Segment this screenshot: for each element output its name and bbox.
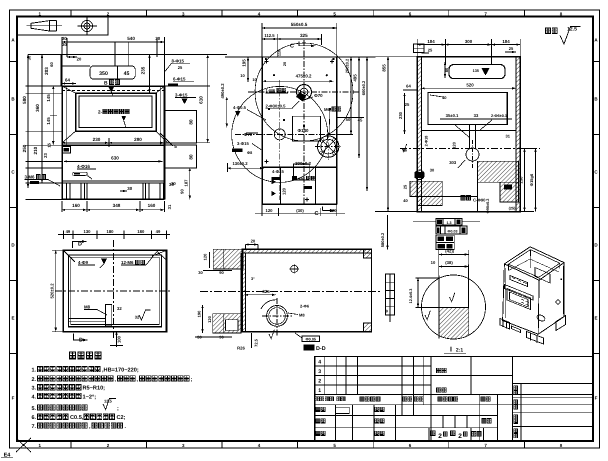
svg-text:40: 40	[403, 198, 408, 203]
second top dim row	[67, 56, 77, 58]
svg-text:25: 25	[178, 65, 183, 70]
svg-text:25: 25	[428, 48, 433, 53]
svg-text:(30): (30)	[296, 208, 304, 213]
svg-text:230: 230	[93, 137, 101, 142]
dim 630	[64, 160, 163, 162]
svg-text:49: 49	[156, 229, 161, 234]
left dim 185/10	[247, 57, 249, 82]
bolt at left wall	[415, 172, 425, 178]
svg-text:8-Φ15: 8-Φ15	[172, 58, 185, 63]
isometric left-front face	[503, 264, 539, 334]
svg-text:1.3: 1.3	[447, 221, 452, 225]
svg-text:10: 10	[240, 73, 245, 78]
right strip	[512, 382, 593, 384]
right dims 250/495/600	[350, 57, 352, 134]
base strip lines	[62, 180, 165, 182]
svg-text:;: ;	[117, 406, 119, 412]
svg-text:20: 20	[77, 57, 82, 62]
svg-text:184: 184	[427, 39, 435, 44]
svg-text:90: 90	[180, 189, 185, 194]
svg-text:Φ: Φ	[385, 309, 389, 312]
tech requirements title	[70, 352, 76, 359]
svg-text:180: 180	[137, 229, 145, 234]
svg-text:135: 135	[473, 69, 479, 73]
front view inner opening inner rect	[79, 96, 152, 128]
svg-text:Φ90±0.2: Φ90±0.2	[486, 199, 490, 214]
svg-text:300±0.2: 300±0.2	[295, 161, 311, 166]
svg-text:190: 190	[196, 310, 201, 317]
svg-text:M8: M8	[299, 177, 305, 182]
svg-text:145: 145	[46, 94, 51, 102]
right wall hatch	[516, 57, 520, 212]
inner vertical lines lower part	[279, 167, 281, 204]
dim 145 chain	[52, 86, 54, 145]
dim 100 below	[116, 332, 118, 347]
plan view outline	[63, 250, 166, 331]
svg-text:210: 210	[33, 146, 38, 154]
svg-text:145: 145	[46, 117, 51, 125]
top dim 30/540/30	[62, 41, 165, 43]
svg-text:30: 30	[62, 36, 67, 41]
D-D outline	[242, 249, 371, 331]
bolt hole dots around circle1	[265, 58, 267, 60]
window rect	[292, 116, 320, 141]
svg-text:3.: 3.	[32, 386, 37, 392]
svg-text:325: 325	[262, 289, 270, 294]
top datum line	[28, 54, 227, 56]
svg-text:130±0.2: 130±0.2	[232, 161, 248, 166]
front view top edge	[62, 85, 165, 87]
svg-text:M6: M6	[324, 107, 330, 112]
zone ticks top/bottom	[70, 10, 72, 17]
plan view inner rects	[68, 255, 161, 327]
svg-text:3: 3	[318, 369, 321, 375]
small rect lower	[293, 164, 309, 180]
svg-text:64: 64	[406, 83, 411, 88]
svg-text:E: E	[11, 316, 14, 321]
svg-text:C-Φ90: C-Φ90	[473, 197, 486, 202]
front view right edge (thick)	[164, 86, 166, 199]
opening corner diagonals	[156, 86, 165, 93]
svg-text:4-Φ0.5: 4-Φ0.5	[233, 105, 247, 110]
svg-text:280: 280	[134, 137, 142, 142]
svg-text:195: 195	[241, 59, 246, 67]
svg-text:;: ;	[191, 377, 193, 383]
svg-text:12.4±0.3: 12.4±0.3	[409, 289, 413, 304]
svg-text:32: 32	[117, 306, 122, 311]
middle view left edge	[261, 57, 263, 204]
material label	[437, 368, 441, 373]
svg-text:160: 160	[148, 203, 156, 208]
title block outer	[315, 357, 593, 441]
svg-text:855: 855	[382, 64, 387, 72]
svg-text:E: E	[594, 316, 597, 321]
isometric slots on front face	[510, 276, 528, 287]
isometric oval hole front	[536, 314, 546, 323]
svg-text:350: 350	[99, 71, 108, 77]
svg-text:5.: 5.	[32, 406, 37, 412]
isometric inner bottom hints	[508, 256, 559, 272]
base foot rects	[67, 183, 85, 199]
top dim 550	[262, 27, 337, 29]
rounded label box 350/45	[90, 66, 135, 79]
inner shelf lines	[68, 318, 105, 320]
D-D phi0.05 box	[302, 336, 320, 342]
section view outline	[417, 57, 520, 212]
dim 855 tall	[387, 57, 389, 212]
D-D bore circles	[267, 306, 288, 327]
svg-text:Φ15g6: Φ15g6	[529, 173, 534, 186]
svg-text:180: 180	[107, 229, 115, 234]
bottom dims 120/(30)/120	[255, 213, 345, 215]
isometric inner wall edges	[507, 264, 509, 270]
dim 520	[422, 87, 517, 89]
svg-text:C0.5,: C0.5,	[70, 415, 84, 421]
svg-text:30: 30	[62, 42, 67, 47]
triangle A mark	[102, 259, 107, 264]
top dim 184/300/184	[417, 44, 445, 46]
svg-text:610: 610	[199, 96, 204, 104]
svg-text:580±0.2: 580±0.2	[380, 232, 385, 247]
right side rect lower	[165, 145, 197, 168]
middle view top edge extended	[225, 56, 375, 58]
svg-text:35±0.1: 35±0.1	[446, 113, 459, 118]
steps outline	[441, 181, 443, 196]
svg-text:(42): (42)	[445, 248, 453, 253]
dashed centerline	[400, 148, 540, 150]
D-D circle cross	[291, 265, 298, 272]
svg-text:2: 2	[318, 379, 321, 385]
svg-text:184: 184	[502, 39, 510, 44]
detail I circle	[422, 275, 486, 339]
svg-text:2.: 2.	[32, 377, 37, 383]
svg-text:2-Φ6: 2-Φ6	[300, 304, 310, 309]
svg-text:Φ70: Φ70	[314, 93, 323, 98]
right side rect upper	[165, 110, 197, 142]
svg-text:110: 110	[278, 50, 282, 56]
svg-text:B: B	[104, 81, 108, 87]
svg-text:50: 50	[311, 176, 316, 181]
svg-text:2: 2	[458, 433, 462, 440]
left extension lines	[26, 85, 63, 87]
bottom right hatched blocks	[478, 161, 519, 182]
svg-text:3-Φ15: 3-Φ15	[237, 141, 249, 146]
detail I finish checks	[450, 292, 455, 301]
D-D centerlines	[200, 291, 380, 293]
svg-text:2-Φ18: 2-Φ18	[425, 136, 429, 147]
svg-text:30: 30	[27, 55, 32, 60]
front view inner opening outer rect	[76, 93, 157, 131]
svg-text:Φ140: Φ140	[298, 128, 309, 133]
svg-text:630: 630	[111, 156, 119, 161]
svg-text:2: 2	[438, 433, 442, 440]
dim 360	[41, 55, 43, 183]
svg-text:72.5: 72.5	[254, 338, 259, 347]
flange circle with bolt holes	[318, 136, 339, 157]
corner trim X mark	[16, 438, 31, 452]
svg-text:495: 495	[353, 74, 358, 82]
svg-text:20: 20	[251, 239, 256, 244]
svg-text:31: 31	[167, 204, 172, 209]
svg-text:F: F	[12, 396, 15, 401]
svg-text:1.: 1.	[32, 368, 37, 374]
svg-text:40: 40	[442, 95, 447, 100]
svg-text:C2;: C2;	[117, 415, 126, 421]
mid small features	[469, 125, 471, 149]
svg-text:25: 25	[403, 184, 408, 189]
plan top dims 49/130/180/180/49	[58, 234, 170, 236]
svg-text:45: 45	[124, 71, 130, 77]
detail I vert dim	[417, 278, 419, 308]
svg-text:30: 30	[155, 36, 160, 41]
svg-text:250±0.2: 250±0.2	[345, 58, 350, 73]
svg-text:2-Φ30±0.5: 2-Φ30±0.5	[266, 103, 287, 108]
middle view bottom edge	[262, 203, 337, 205]
D-D finish checks	[269, 330, 274, 339]
svg-text:2:1: 2:1	[456, 348, 463, 354]
dim 520 vertical	[55, 250, 57, 331]
svg-text:600±0.2: 600±0.2	[361, 80, 366, 95]
svg-text:120: 120	[281, 187, 286, 195]
mid thick horizontal	[262, 166, 337, 168]
svg-text:30: 30	[127, 186, 132, 191]
big circle 2	[232, 86, 328, 182]
dim 580 rot	[387, 215, 389, 249]
right tolerance frame stack vertical	[386, 274, 395, 315]
svg-text:Φ0.03: Φ0.03	[448, 229, 458, 233]
dim 580	[27, 55, 29, 188]
front view left edge	[61, 86, 63, 199]
svg-text:1: 1	[318, 388, 321, 394]
svg-text:R26: R26	[237, 346, 245, 351]
svg-text:45: 45	[358, 118, 363, 123]
scale label 比例	[482, 419, 486, 423]
D-D corner hatches right	[364, 249, 372, 258]
svg-text:31: 31	[505, 134, 510, 139]
svg-text:235: 235	[140, 66, 145, 74]
svg-text:F: F	[595, 396, 598, 401]
edition label	[470, 428, 472, 441]
svg-text:25: 25	[509, 46, 514, 51]
isometric inner back window	[535, 268, 550, 284]
svg-text:Φ70: Φ70	[244, 132, 253, 137]
svg-text:120: 120	[330, 208, 338, 213]
svg-text:360: 360	[35, 104, 40, 112]
svg-text:M8: M8	[299, 313, 305, 318]
dim 490 vertical	[226, 97, 228, 128]
svg-text:4.: 4.	[32, 394, 37, 400]
svg-text:112.5: 112.5	[264, 33, 275, 38]
svg-text:187: 187	[184, 179, 189, 187]
svg-text:R5~R10;: R5~R10;	[83, 386, 106, 392]
title block vertical lines upper	[324, 357, 326, 395]
svg-text:,HB=170~220;: ,HB=170~220;	[102, 368, 139, 374]
svg-text:230: 230	[398, 111, 403, 119]
leader lines middle view	[247, 110, 266, 121]
svg-text:7.: 7.	[32, 424, 37, 430]
projection cone symbol	[27, 25, 63, 27]
svg-text:10: 10	[431, 260, 436, 265]
svg-text:3°: 3°	[251, 277, 255, 281]
zone ticks left/right	[10, 61, 18, 63]
title block horizontal lines	[315, 365, 431, 367]
signature labels	[316, 407, 320, 411]
svg-text:5: 5	[174, 144, 177, 149]
svg-text:M8: M8	[84, 305, 91, 310]
svg-text:1-M6: 1-M6	[266, 88, 276, 93]
svg-text:4-Φ15: 4-Φ15	[272, 169, 284, 174]
signature area verticals	[335, 405, 337, 441]
svg-text:20: 20	[283, 62, 287, 66]
svg-text:3-M6: 3-M6	[25, 175, 36, 180]
bottom dim 160/348/160	[62, 209, 87, 211]
svg-text:520: 520	[466, 83, 474, 88]
mid thick line	[62, 144, 165, 146]
D-D title	[304, 345, 326, 353]
dim 235 vertical	[149, 55, 151, 94]
svg-text:348: 348	[113, 203, 121, 208]
svg-text:23: 23	[43, 153, 48, 158]
svg-text:100: 100	[116, 335, 121, 343]
dark label C-C	[461, 196, 465, 200]
corner plus marks	[265, 61, 269, 63]
svg-text:33: 33	[474, 113, 479, 118]
bore circle 2	[274, 129, 285, 140]
sheet number row	[428, 428, 430, 441]
tolerance frames stack	[413, 221, 436, 223]
quantity label	[437, 388, 441, 393]
svg-text:D: D	[78, 242, 82, 248]
dim 610 vertical	[207, 55, 209, 143]
small dark rect left edge mid	[62, 147, 71, 154]
labels right of section	[524, 149, 526, 212]
svg-text:6.: 6.	[32, 415, 37, 421]
left wall hatch	[417, 57, 421, 212]
svg-text:4-Φ16: 4-Φ16	[77, 164, 90, 169]
isometric box top rim outer	[504, 247, 564, 280]
svg-text:Φ0.05: Φ0.05	[306, 338, 317, 342]
svg-text:10: 10	[252, 78, 256, 82]
svg-text:120: 120	[207, 315, 212, 322]
small marker box left of section top	[414, 44, 425, 53]
svg-text:203: 203	[44, 67, 49, 75]
isometric small hole right face	[556, 300, 560, 304]
svg-text:D-D: D-D	[316, 346, 326, 352]
centerlines circle2	[235, 133, 345, 135]
svg-text:250: 250	[518, 176, 523, 184]
D-D left wall hatch	[241, 253, 246, 332]
isometric feet	[500, 319, 510, 330]
svg-text:550±0.5: 550±0.5	[291, 22, 308, 27]
inner cavity rect	[428, 93, 507, 125]
svg-text:D: D	[79, 338, 83, 344]
svg-text:49: 49	[66, 229, 71, 234]
front view inner wall verticals	[65, 86, 67, 145]
svg-text:4: 4	[318, 360, 321, 366]
svg-text:3-Φ15: 3-Φ15	[175, 93, 188, 98]
centerlines circle1	[248, 91, 360, 93]
plan centerlines	[113, 240, 115, 340]
D-D bottom-left block	[213, 314, 241, 333]
svg-text:475±0.2: 475±0.2	[296, 74, 312, 79]
big circle 1	[255, 43, 353, 141]
svg-text:2-Φ6±0.1: 2-Φ6±0.1	[491, 114, 507, 118]
svg-text:490±0.2: 490±0.2	[220, 83, 225, 99]
svg-text:80: 80	[188, 154, 193, 160]
svg-text:4-Φ9: 4-Φ9	[78, 260, 89, 265]
svg-text:30: 30	[171, 181, 176, 186]
svg-text:120: 120	[266, 208, 274, 213]
svg-text:I: I	[450, 347, 452, 354]
D-D top hatched band	[242, 249, 371, 253]
front view bottom edge	[62, 198, 165, 200]
svg-text:325: 325	[300, 33, 308, 38]
svg-text:30: 30	[198, 270, 203, 275]
svg-text:60: 60	[49, 62, 54, 67]
svg-text:303: 303	[449, 160, 457, 165]
corner diagonals	[157, 252, 167, 261]
middle view right edge	[336, 57, 338, 204]
svg-text:120: 120	[451, 141, 456, 148]
detail I hatch region	[439, 308, 469, 341]
svg-text:1~2°;: 1~2°;	[83, 394, 97, 400]
qiyu text	[546, 28, 551, 33]
svg-text:(38): (38)	[445, 260, 453, 265]
svg-text:120: 120	[203, 253, 208, 260]
svg-text:580: 580	[22, 96, 27, 104]
C-C leaders	[455, 125, 470, 138]
svg-text:25: 25	[405, 102, 410, 107]
projection circle symbol	[81, 20, 92, 31]
svg-text:Φ8: Φ8	[247, 151, 252, 155]
isometric top rim inner	[508, 250, 559, 278]
svg-text:64: 64	[65, 78, 70, 83]
top slot rounded	[449, 65, 505, 79]
svg-text:12-M6: 12-M6	[121, 260, 134, 265]
bore circle 1	[297, 85, 312, 100]
svg-text:2-: 2-	[98, 110, 103, 115]
svg-text:160: 160	[72, 203, 80, 208]
detail I part edges	[438, 276, 440, 339]
svg-text:16: 16	[402, 148, 407, 153]
top dim 112.5 / 325	[262, 38, 277, 40]
svg-text:130: 130	[84, 229, 92, 234]
svg-text:6-Φ15: 6-Φ15	[173, 76, 186, 81]
signature box	[336, 407, 350, 413]
hidden line near top	[62, 90, 165, 92]
svg-text:80: 80	[188, 119, 193, 125]
svg-text:(25): (25)	[509, 207, 516, 211]
svg-text:540: 540	[127, 36, 135, 41]
isometric right face	[538, 263, 564, 335]
svg-text:520±0.2: 520±0.2	[49, 283, 54, 299]
D-D top-left block	[213, 249, 243, 269]
svg-text:C: C	[290, 44, 294, 50]
header row labels	[315, 397, 319, 401]
svg-text:30: 30	[430, 168, 435, 173]
slot symbol	[73, 172, 88, 175]
stage mark subcells	[442, 416, 444, 428]
projection symbol box	[17, 17, 108, 36]
svg-text:300: 300	[465, 39, 473, 44]
